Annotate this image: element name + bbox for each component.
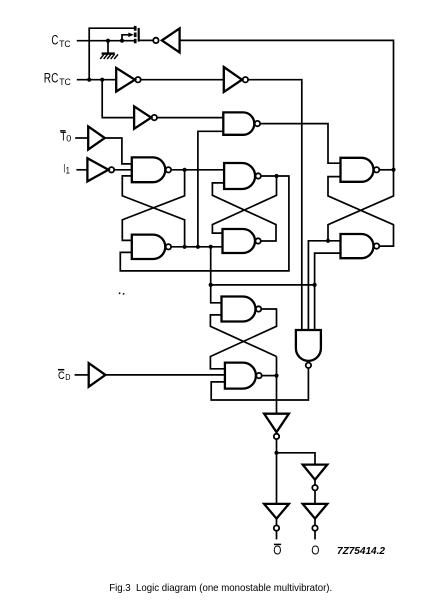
svg-text:O: O bbox=[311, 543, 319, 558]
svg-text:TC: TC bbox=[59, 77, 71, 87]
svg-text:D: D bbox=[65, 373, 70, 382]
svg-text:7Z75414.2: 7Z75414.2 bbox=[337, 546, 385, 557]
svg-text:0: 0 bbox=[66, 134, 71, 144]
svg-text:Fig.3 Logic diagram (one mono: Fig.3 Logic diagram (one monostable mult… bbox=[109, 583, 332, 594]
svg-text:TC: TC bbox=[59, 39, 71, 49]
svg-text:1: 1 bbox=[66, 166, 70, 176]
svg-text:C: C bbox=[51, 33, 58, 48]
svg-text:RC: RC bbox=[44, 71, 59, 86]
svg-text:C: C bbox=[58, 370, 65, 382]
